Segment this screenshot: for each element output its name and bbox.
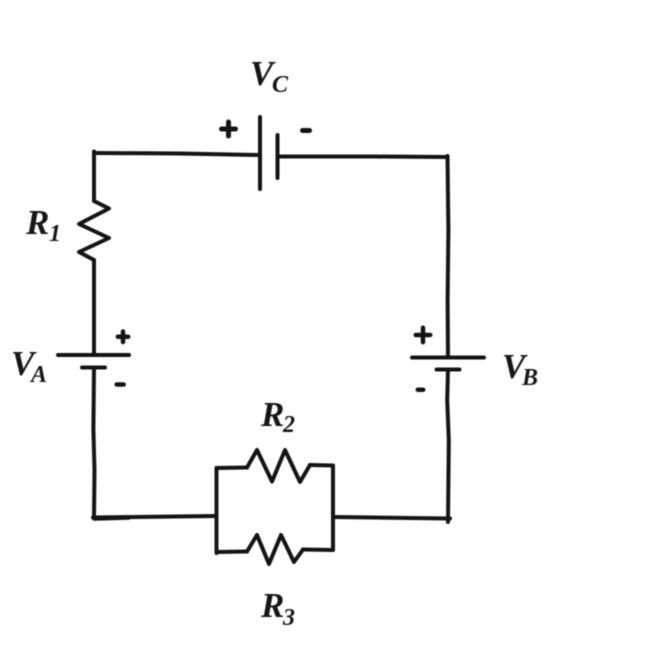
label R3 — [260, 586, 295, 631]
wire bottom-left horizontal — [93, 516, 216, 518]
svg-text:B: B — [521, 365, 538, 391]
label VB — [502, 347, 538, 391]
svg-text:1: 1 — [49, 221, 61, 247]
plus sign of VC — [222, 122, 236, 136]
wire top branch right stub — [310, 463, 333, 468]
svg-text:A: A — [29, 362, 47, 388]
label R2 — [260, 395, 295, 438]
battery VC short plate — [276, 135, 280, 178]
label R1 — [25, 203, 61, 247]
svg-text:3: 3 — [282, 605, 295, 631]
minus sign of VB — [418, 387, 423, 392]
wire bottom branch right stub — [303, 548, 333, 553]
plus sign of VB — [416, 328, 430, 342]
wire bottom-right horizontal — [333, 517, 450, 519]
battery VB long plate — [412, 356, 484, 360]
battery VC long plate — [258, 117, 262, 189]
node left bar of parallel network — [215, 468, 219, 553]
wire right vertical upper (corner to VB) — [446, 156, 451, 357]
battery VA short plate — [82, 366, 105, 370]
minus sign of VA — [117, 382, 124, 387]
label VC — [250, 54, 289, 98]
battery VB short plate — [437, 368, 460, 372]
resistor R3 — [247, 535, 303, 564]
label VA — [11, 344, 47, 388]
svg-text:R: R — [25, 203, 49, 242]
wire top branch left stub — [217, 466, 248, 471]
plus sign of VA — [118, 332, 128, 343]
battery VA long plate — [58, 353, 129, 357]
wire top-right horizontal — [280, 155, 447, 160]
svg-text:2: 2 — [282, 412, 295, 438]
wire left vertical middle (R1 to VA) — [92, 260, 96, 355]
wire top-left horizontal — [94, 153, 258, 155]
svg-text:C: C — [272, 72, 289, 98]
wire left vertical upper (corner to R1) — [92, 152, 96, 202]
wire bottom branch left stub — [217, 550, 248, 555]
resistor R1 — [79, 201, 109, 260]
svg-text:R: R — [260, 395, 284, 434]
wire left vertical lower (VA to bottom corner) — [93, 368, 94, 518]
resistor R2 — [247, 450, 310, 482]
svg-text:R: R — [260, 586, 284, 625]
node right bar of parallel network — [331, 466, 335, 550]
minus sign of VC — [303, 128, 310, 133]
wire right vertical lower (VB to bottom corner) — [447, 370, 449, 523]
